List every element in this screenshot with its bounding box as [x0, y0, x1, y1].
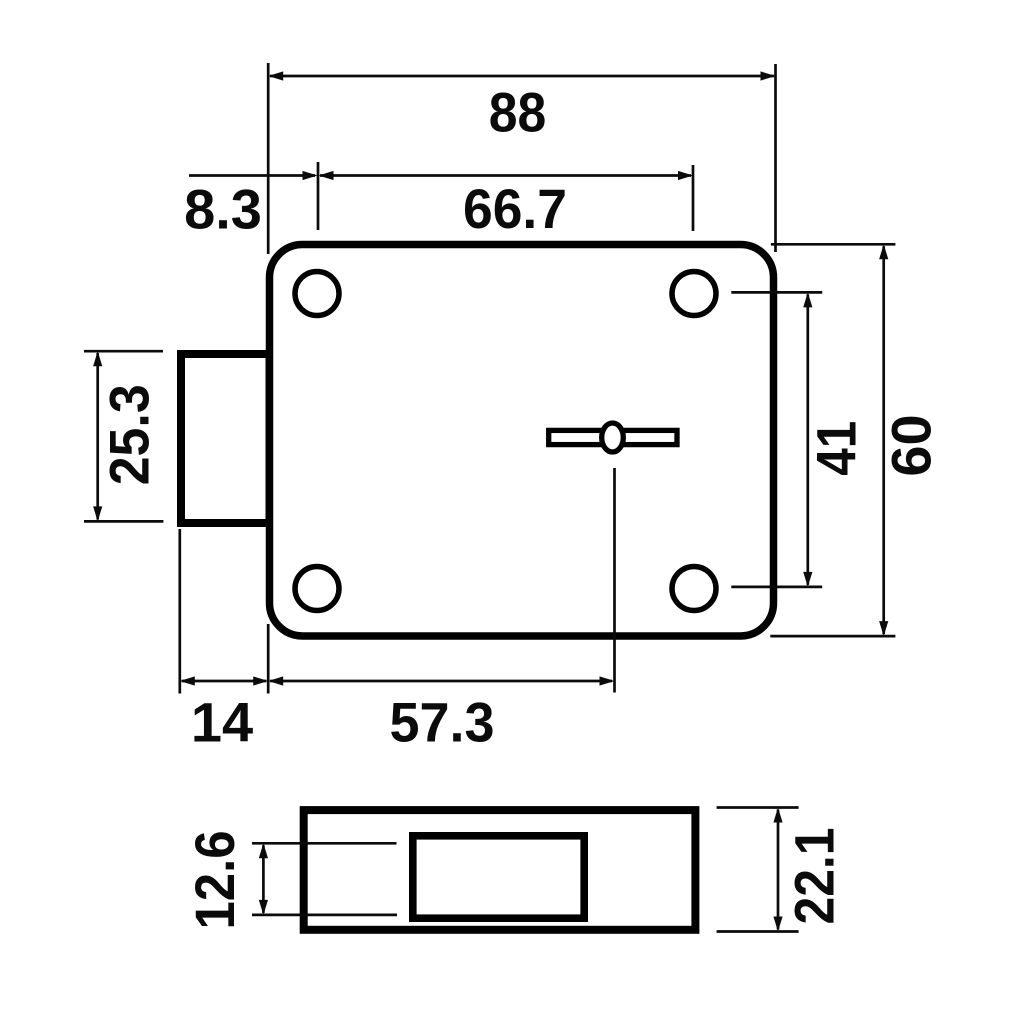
svg-text:41: 41 — [804, 421, 867, 476]
svg-text:14: 14 — [191, 690, 253, 753]
svg-text:8.3: 8.3 — [184, 177, 262, 240]
svg-text:57.3: 57.3 — [390, 690, 495, 753]
svg-text:22.1: 22.1 — [782, 828, 845, 925]
svg-text:12.6: 12.6 — [183, 831, 246, 930]
svg-text:88: 88 — [489, 80, 547, 143]
svg-text:25.3: 25.3 — [97, 384, 160, 485]
svg-text:66.7: 66.7 — [463, 177, 567, 240]
svg-text:60: 60 — [879, 414, 942, 476]
